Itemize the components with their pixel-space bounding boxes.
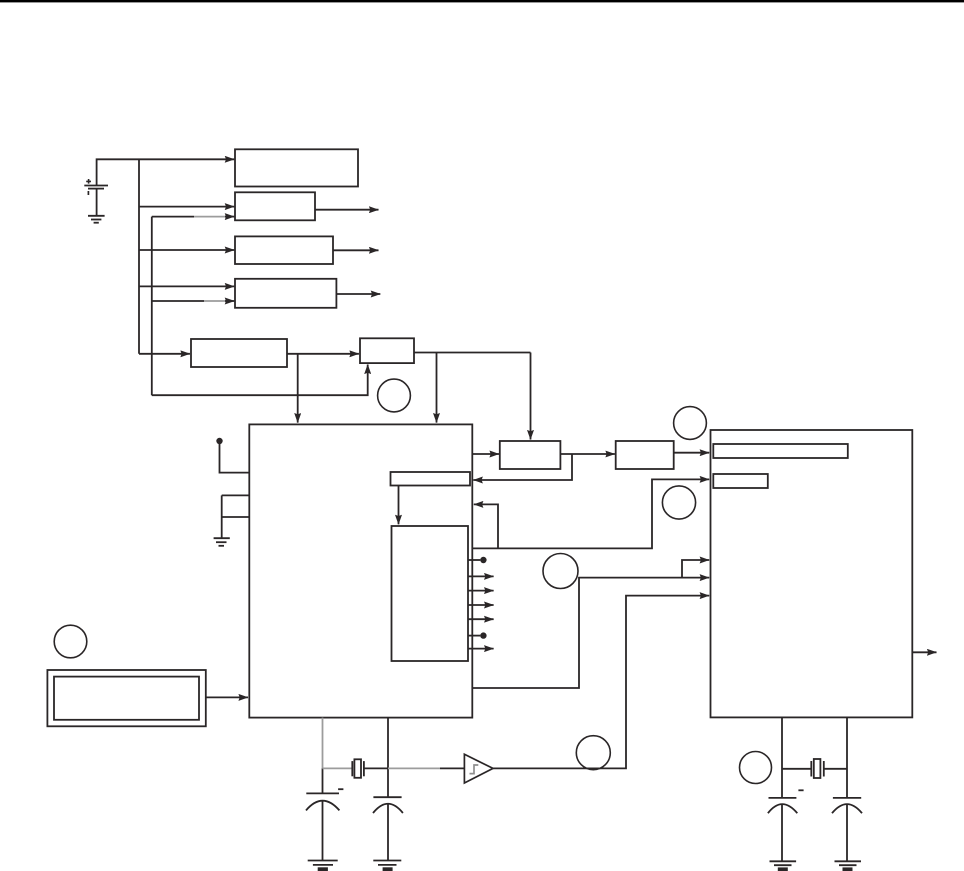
- inner block inside MCU: [392, 526, 469, 661]
- wire block B2 output: [315, 209, 379, 211]
- ground under C4: [835, 861, 862, 869]
- inner bar 2 in IC2: [713, 474, 768, 488]
- capacitor C3: [768, 798, 797, 861]
- wire junction drop into MCU top left: [297, 354, 299, 423]
- wire IC2 bottom left xtal leg: [781, 717, 783, 798]
- wire LCD to MCU: [206, 696, 248, 698]
- callout circle 7: [740, 752, 772, 784]
- block B2: [235, 192, 315, 220]
- block B1: [235, 149, 358, 186]
- block B5: [191, 339, 287, 367]
- pin arrow 4: [468, 618, 494, 620]
- ground under C3: [770, 861, 797, 869]
- LCD module inner: [54, 677, 199, 720]
- wire block B6 output: [414, 352, 531, 354]
- capacitor C1: [306, 793, 339, 860]
- minus mark at C3: [798, 789, 803, 791]
- pin arrow 1: [468, 575, 494, 577]
- minus mark at C1: [338, 788, 343, 790]
- wire bus1 to block B4: [139, 285, 234, 287]
- wire power bus 1: [138, 159, 140, 353]
- inner bar 1 in IC2: [713, 444, 848, 458]
- wire IC2 output: [912, 651, 936, 653]
- wire bus1 to block B1: [139, 158, 234, 160]
- pin with dot 1: [468, 557, 487, 563]
- ground under C2: [373, 861, 401, 870]
- wire IC2 bottom right xtal leg: [846, 717, 848, 798]
- wire drop into block B7 top: [530, 353, 532, 440]
- schmitt trigger U2: [464, 754, 493, 783]
- wire bus1 to block B2: [139, 206, 234, 208]
- wire bus1 to block B3: [139, 249, 234, 251]
- wire feedback to register bar: [473, 454, 572, 480]
- wire power bus 2: [151, 217, 153, 396]
- callout circle 1: [378, 379, 411, 412]
- capacitor C4: [832, 798, 862, 861]
- wire bar to inner block: [398, 486, 400, 525]
- capacitor C2: [373, 797, 403, 860]
- node dot on MCU left: [216, 438, 249, 473]
- wire MCU bottom-right to IC2: [472, 578, 709, 688]
- wire branch left into MCU: [474, 504, 498, 548]
- wire bus1 into block B5: [139, 353, 190, 355]
- callout circle 6: [576, 736, 610, 770]
- wire MCU left pin stubs: [222, 495, 250, 538]
- wire block B8 output to IC2: [674, 452, 710, 454]
- wire MCU bottom left xtal leg: [322, 718, 324, 794]
- block B3: [235, 236, 333, 264]
- block B8: [616, 441, 674, 469]
- pin arrow 5: [468, 648, 494, 650]
- wire schmitt output to IC2: [493, 596, 709, 769]
- wire block B4 output: [336, 293, 380, 295]
- callout circle 5: [54, 625, 87, 658]
- IC2: [711, 430, 913, 717]
- pin arrow 2: [468, 590, 494, 592]
- wire bus2 to block B4 lower input: [152, 300, 235, 302]
- crystal Y1: [323, 759, 465, 778]
- block B4: [235, 279, 336, 308]
- wire drop into MCU top right: [436, 353, 438, 423]
- ground under C1: [308, 861, 338, 870]
- MCU U1: [249, 424, 472, 717]
- wire MCU to IC2 upper: [472, 479, 709, 548]
- battery BT1: [84, 179, 108, 195]
- wire block B7 output to block B8: [560, 453, 615, 455]
- wire block B3 output: [333, 249, 379, 251]
- block B6: [360, 338, 414, 363]
- wire MCU to block B7: [472, 453, 499, 455]
- pin with dot 2: [468, 632, 487, 638]
- register bar inside MCU: [391, 472, 471, 486]
- block B7: [500, 441, 561, 469]
- wire branch into IC2: [682, 560, 709, 578]
- wire bus2 to block B6 bottom: [152, 365, 368, 396]
- callout circle 3: [674, 407, 707, 440]
- crystal Y2: [782, 759, 847, 778]
- wire bus2 to block B2 lower input: [152, 216, 235, 218]
- callout circle 4: [662, 486, 695, 519]
- LCD module outer: [47, 670, 205, 726]
- wire battery top to bus: [97, 159, 139, 185]
- ground at MCU left: [214, 538, 230, 546]
- wire MCU bottom right xtal leg: [387, 718, 389, 798]
- wire block B5 output to block B6: [287, 353, 359, 355]
- callout circle 2: [543, 554, 578, 589]
- pin arrow 3: [468, 604, 494, 606]
- ground under battery: [88, 189, 105, 223]
